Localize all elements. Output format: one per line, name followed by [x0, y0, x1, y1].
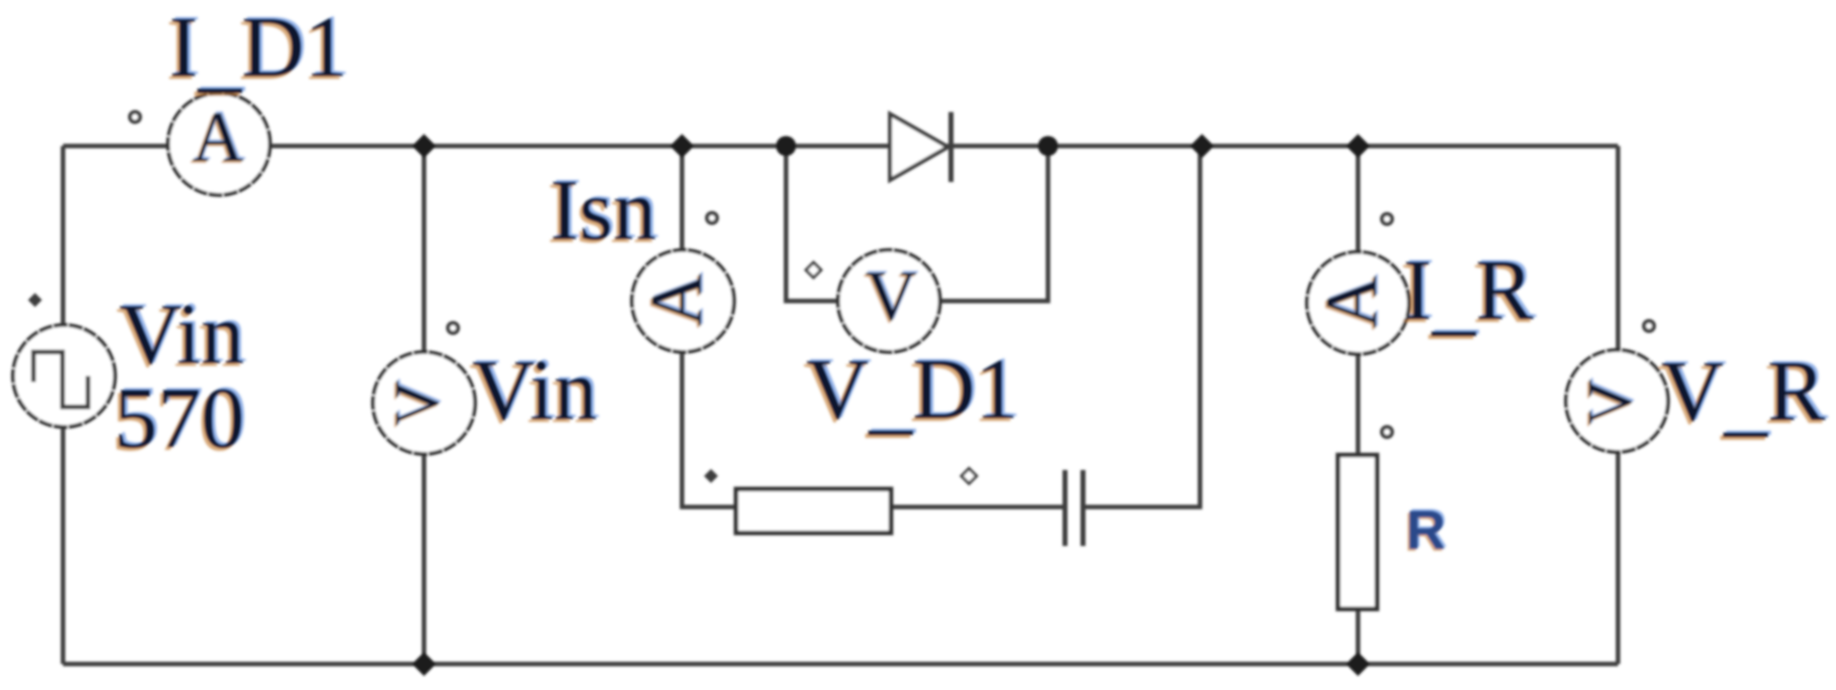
svg-text:R: R — [1406, 499, 1446, 561]
junction (node Isn top) — [670, 134, 694, 158]
label Vin (voltmeter) — [469, 339, 600, 441]
wire snubber cap to top bus — [1085, 146, 1200, 507]
wire left vertical (source branch) — [61, 146, 66, 664]
svg-text:I_D1: I_D1 — [169, 0, 348, 101]
pin marker I_D1 — [130, 112, 140, 122]
wire bottom bus — [63, 662, 1618, 667]
voltmeter V_D1 — [838, 250, 940, 352]
wire Vin voltmeter branch — [422, 146, 427, 664]
svg-text:V: V — [381, 380, 452, 426]
resistor (snubber) — [736, 489, 891, 533]
pin marker V_R — [1644, 321, 1654, 331]
svg-text:V_D1: V_D1 — [806, 340, 1019, 443]
svg-text:V: V — [865, 256, 917, 336]
pin marker I_R bottom — [1382, 427, 1392, 437]
svg-text:I_R: I_R — [1403, 241, 1534, 344]
wire V_D1 left lead — [786, 146, 860, 301]
capacitor (snubber) — [1065, 470, 1083, 546]
pin marker source — [28, 293, 42, 307]
label Vin (source name) — [116, 283, 247, 385]
pin marker V_D1 — [806, 263, 821, 278]
voltmeter Vin — [373, 352, 475, 454]
label 570 (source value) — [111, 367, 248, 469]
voltage source Vin 570 — [13, 325, 115, 427]
junction (node I_R top) — [1346, 134, 1370, 158]
svg-text:V: V — [1574, 379, 1645, 425]
junction (node I_R bottom) — [1346, 652, 1370, 676]
diode D1 — [890, 112, 951, 182]
label I_D1 — [166, 0, 351, 104]
voltmeter V_R — [1566, 350, 1668, 452]
wire Isn / snubber branch — [682, 146, 1063, 507]
svg-text:570: 570 — [114, 369, 245, 466]
svg-text:V_R: V_R — [1661, 342, 1825, 445]
wire top bus — [63, 144, 1618, 149]
svg-text:Isn: Isn — [550, 161, 656, 258]
label V_D1 — [803, 338, 1022, 446]
junction (node D1 cathode) — [1038, 136, 1058, 156]
junction (node snubber top) — [1190, 134, 1214, 158]
resistor R — [1338, 455, 1377, 609]
ammeter I_R — [1307, 252, 1409, 354]
pin marker Isn — [707, 213, 717, 223]
svg-text:Vin: Vin — [472, 341, 597, 438]
label Isn — [547, 159, 659, 261]
pin marker Vin voltmeter — [448, 323, 458, 333]
wire V_D1 right lead — [920, 146, 1048, 301]
junction (node Vin bottom) — [412, 652, 436, 676]
junction (node D1 anode) — [776, 136, 796, 156]
svg-text:A: A — [636, 273, 718, 326]
ammeter Isn — [632, 250, 734, 352]
label R (resistor value) — [1404, 497, 1448, 563]
pin marker snubber R left — [704, 469, 718, 483]
wire I_R branch — [1356, 146, 1361, 664]
pin marker I_R top — [1382, 214, 1392, 224]
pin marker snubber cap — [962, 469, 977, 484]
svg-text:A: A — [192, 97, 244, 177]
label I_R — [1400, 239, 1537, 347]
ammeter I_D1 — [168, 93, 270, 195]
label V_R — [1658, 340, 1828, 448]
wire V_R branch — [1616, 146, 1621, 664]
junction (node Vin top) — [412, 134, 436, 158]
svg-text:A: A — [1311, 275, 1393, 328]
